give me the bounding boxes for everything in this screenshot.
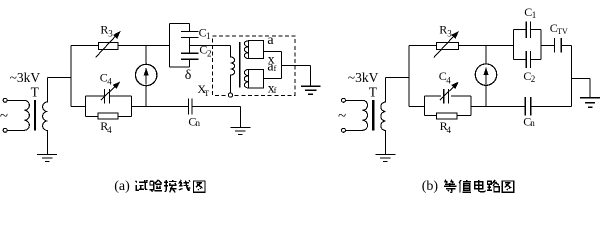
svg-text:(b): (b) [422, 179, 439, 194]
svg-text:~: ~ [338, 108, 346, 124]
svg-text:~3kV: ~3kV [10, 70, 41, 85]
svg-text:1: 1 [532, 10, 537, 20]
svg-text:n: n [530, 118, 535, 128]
svg-text:TV: TV [557, 27, 568, 36]
svg-text:T: T [31, 84, 40, 99]
svg-text:f: f [274, 86, 277, 95]
svg-text:~: ~ [0, 108, 8, 124]
svg-text:R: R [100, 23, 108, 37]
svg-text:R: R [439, 23, 447, 37]
svg-text:4: 4 [446, 75, 451, 85]
svg-text:T: T [369, 84, 378, 99]
svg-text:n: n [196, 118, 201, 128]
svg-text:f: f [274, 64, 277, 73]
svg-text:T: T [204, 89, 209, 98]
svg-text:1: 1 [206, 31, 211, 41]
svg-text:δ: δ [185, 68, 192, 83]
svg-text:2: 2 [531, 74, 536, 84]
svg-text:4: 4 [107, 125, 112, 135]
svg-text:3: 3 [447, 28, 452, 38]
svg-text:4: 4 [447, 125, 452, 135]
svg-text:~3kV: ~3kV [348, 70, 379, 85]
svg-text:4: 4 [107, 76, 112, 86]
svg-text:(a): (a) [114, 179, 130, 194]
svg-text:2: 2 [207, 48, 212, 58]
svg-text:a: a [267, 33, 274, 48]
svg-text:3: 3 [108, 28, 113, 38]
